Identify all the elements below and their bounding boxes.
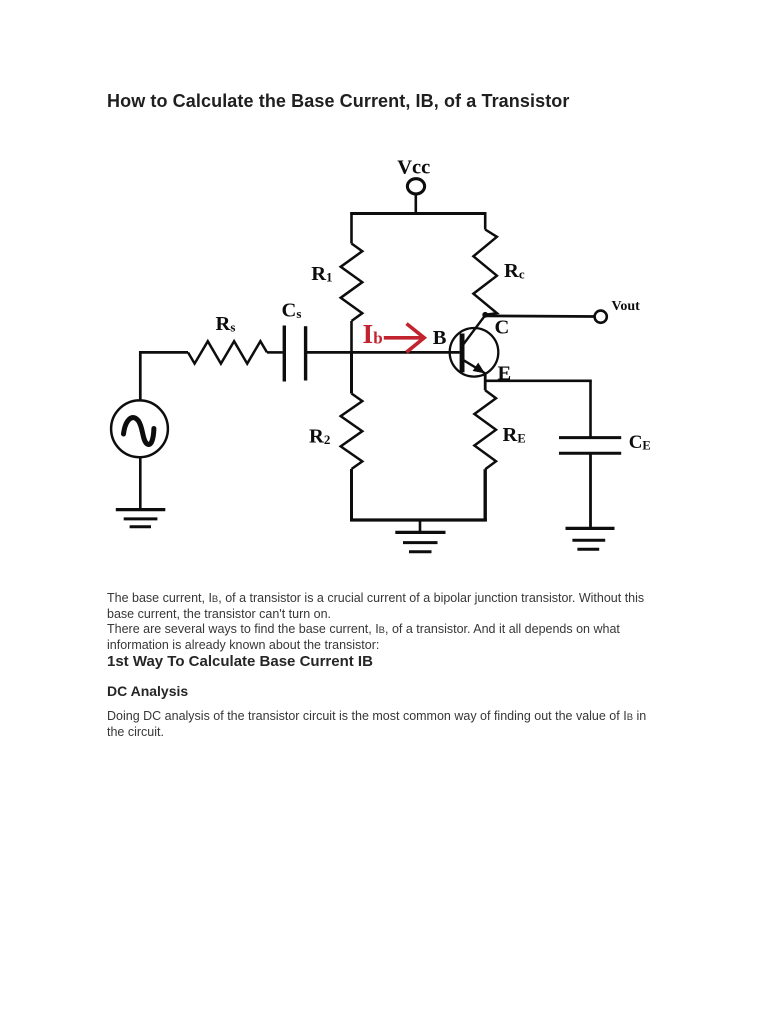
svg-text:CE: CE [629,432,651,453]
svg-text:Ib: Ib [363,318,383,349]
svg-text:Vout: Vout [612,299,641,314]
svg-text:RE: RE [503,424,526,446]
svg-text:R1: R1 [311,263,332,285]
svg-text:Rs: Rs [216,313,236,335]
svg-text:Cs: Cs [282,300,302,322]
svg-text:C: C [495,317,510,339]
svg-text:E: E [498,363,512,385]
svg-text:R2: R2 [309,425,330,447]
svg-text:Rc: Rc [504,260,525,282]
svg-text:B: B [433,327,447,349]
svg-text:Vcc: Vcc [397,157,430,179]
